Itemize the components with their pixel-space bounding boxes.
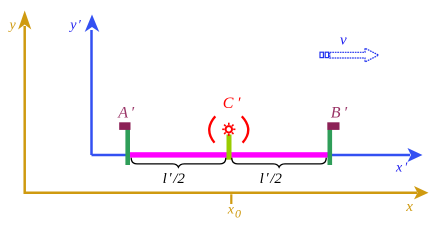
y' axis (primed frame, blue) [85, 15, 100, 156]
svg-text:A′: A′ [117, 105, 134, 122]
velocity arrow small square 2 [325, 52, 328, 57]
left parenthesis around flash [209, 116, 215, 142]
marker bar C' (yellow-green) [227, 135, 232, 160]
flag cap at B' (maroon) [327, 122, 339, 130]
left underbrace A'C' [131, 158, 226, 167]
right parenthesis around flash [242, 116, 248, 142]
rod (magenta) [130, 152, 328, 157]
svg-text:B′: B′ [331, 105, 348, 122]
y axis (unprimed frame, olive) [18, 11, 31, 194]
svg-text:x′: x′ [395, 161, 408, 176]
svg-text:y: y [8, 18, 17, 33]
flag cap at A' (maroon) [119, 122, 130, 130]
svg-text:y′: y′ [68, 18, 81, 33]
svg-text:C′: C′ [223, 95, 241, 112]
svg-text:l′/2: l′/2 [163, 170, 186, 187]
x' axis (primed frame, blue) [92, 148, 423, 162]
svg-text:v: v [340, 33, 347, 49]
velocity block arrow (dashed outline) [330, 48, 379, 62]
x axis (unprimed frame, olive) [24, 186, 429, 199]
marker bar B' (green) [328, 124, 333, 165]
marker bar A' (green) [125, 124, 130, 165]
x0 tick on x axis [230, 194, 232, 204]
right underbrace C'B' [232, 158, 326, 167]
svg-text:x: x [405, 199, 413, 215]
velocity arrow small square 1 [320, 52, 323, 57]
svg-text:l′/2: l′/2 [260, 170, 283, 187]
flash star at C' [222, 123, 235, 136]
